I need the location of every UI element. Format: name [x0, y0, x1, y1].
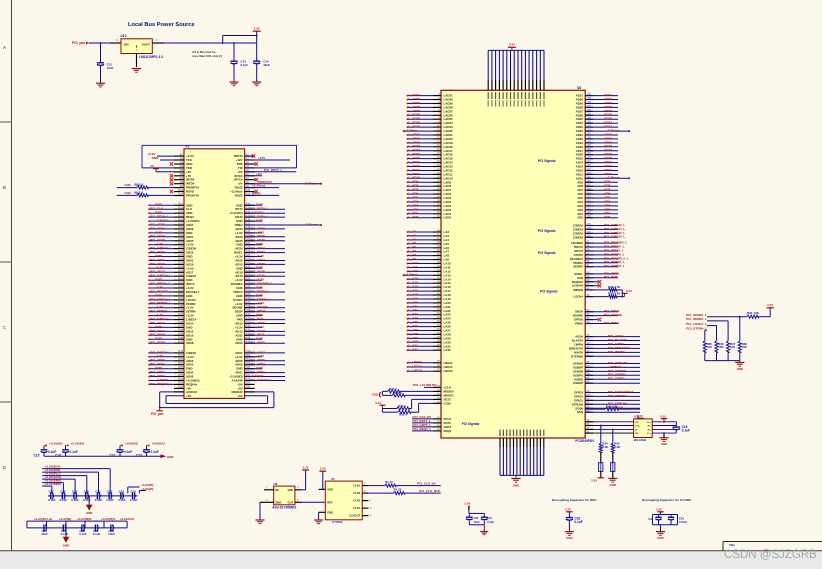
- svg-text:SSQ: SSQ: [577, 410, 584, 414]
- svg-text:0.1uF: 0.1uF: [70, 450, 78, 454]
- svg-text:PCI_LOCK#_L: PCI_LOCK#_L: [686, 322, 707, 326]
- svg-text:B41: B41: [178, 317, 183, 320]
- svg-text:10K: 10K: [718, 345, 724, 349]
- svg-text:B57: B57: [178, 382, 183, 385]
- svg-text:LAD0: LAD0: [444, 216, 452, 220]
- svg-text:L_AD0: L_AD0: [409, 215, 419, 219]
- svg-text:2.2K: 2.2K: [614, 445, 621, 449]
- EEPROM U11 body: [634, 419, 653, 438]
- connector P1 bottom loop inner: [166, 395, 184, 397]
- capacitor C12: [100, 43, 102, 63]
- connector P1 body: [184, 149, 245, 399]
- U7 left pin stubs: [319, 488, 326, 490]
- svg-text:LM1117MPX-3.3: LM1117MPX-3.3: [139, 55, 163, 59]
- ground below C13: [229, 81, 238, 83]
- svg-text:PCI_SDONE: PCI_SDONE: [604, 313, 622, 317]
- ground below U10: [132, 68, 141, 70]
- svg-text:CSDN @SJZGRB: CSDN @SJZGRB: [724, 549, 817, 561]
- connector P1 right pins group2: [245, 204, 255, 206]
- svg-text:0.1uF: 0.1uF: [61, 532, 69, 536]
- svg-text:+3.3Vaux: +3.3Vaux: [252, 184, 266, 188]
- svg-text:REQ#: REQ#: [444, 429, 452, 433]
- U8 right pin M66EN pull-up resistor R28: [585, 289, 593, 291]
- svg-text:C/BE3#: C/BE3#: [573, 235, 584, 239]
- svg-text:B24: B24: [178, 250, 183, 253]
- svg-text:2.2K: 2.2K: [602, 445, 609, 449]
- svg-text:CLK1: CLK1: [353, 484, 361, 488]
- power 3.3V above U6: [302, 469, 309, 471]
- bottom rail pull network: [705, 360, 740, 362]
- power 3.3V above EEPROM right: [663, 419, 665, 422]
- clock buffer U7 body: [325, 481, 362, 520]
- svg-text:BTERM#: BTERM#: [571, 354, 583, 358]
- svg-text:D: D: [3, 465, 6, 470]
- svg-text:B39: B39: [178, 309, 183, 312]
- svg-text:0.1uF: 0.1uF: [60, 498, 68, 502]
- svg-text:+3.3V(B): +3.3V(B): [141, 487, 153, 491]
- svg-text:PCI Signals: PCI Signals: [540, 290, 558, 294]
- ground port MODE pins: [381, 391, 383, 395]
- capacitor C31: [481, 516, 488, 518]
- regulator ground pin wire: [136, 54, 138, 68]
- svg-text:PME#: PME#: [575, 322, 583, 326]
- svg-text:+3.3V(IO): +3.3V(IO): [49, 442, 63, 446]
- svg-text:B42: B42: [178, 321, 183, 324]
- svg-text:C16: C16: [55, 453, 61, 457]
- cap bank row C: [27, 520, 127, 522]
- cap bank row A: [43, 445, 45, 449]
- svg-text:+12V: +12V: [258, 156, 266, 160]
- svg-text:3.3V: 3.3V: [375, 401, 381, 405]
- svg-text:10uF: 10uF: [263, 63, 270, 67]
- svg-text:0.1uF: 0.1uF: [106, 498, 114, 502]
- svg-text:A57: A57: [246, 382, 251, 385]
- svg-text:DO: DO: [635, 433, 639, 435]
- svg-text:B58: B58: [178, 386, 183, 389]
- EEPROM right wires: [652, 421, 676, 423]
- svg-text:PCI_PAR: PCI_PAR: [604, 275, 618, 279]
- svg-text:10uF: 10uF: [107, 66, 114, 70]
- U8 left pins TEST CC0 with resistors to 3.3V: [433, 398, 441, 400]
- svg-text:B16: B16: [178, 218, 183, 221]
- U8 left pins MODE group with resistors: [433, 390, 441, 392]
- svg-text:0.1uF: 0.1uF: [124, 450, 132, 454]
- zone tick y=262: [0, 261, 12, 263]
- svg-text:A58: A58: [246, 386, 251, 389]
- svg-text:PCI_CLK 1/0: PCI_CLK 1/0: [417, 482, 436, 486]
- svg-text:AD0: AD0: [604, 215, 610, 219]
- U8 right pins GPIO group: [585, 392, 593, 394]
- capacitor C34: [670, 515, 672, 518]
- svg-text:C20: C20: [84, 490, 90, 494]
- ground below EEPROM right: [663, 433, 665, 438]
- svg-text:0.01uF: 0.01uF: [679, 520, 688, 524]
- svg-text:C17: C17: [49, 490, 55, 494]
- svg-text:R28 4.7K: R28 4.7K: [608, 285, 621, 289]
- U8 right pin LOCK# pull-up resistor R29 to 3.3V: [585, 296, 593, 298]
- cap bank row B capacitors: [48, 495, 138, 497]
- svg-text:B32: B32: [178, 281, 183, 284]
- svg-text:VDD: VDD: [327, 487, 333, 491]
- svg-text:L_A32: L_A32: [409, 348, 419, 352]
- svg-text:0.1uF: 0.1uF: [79, 532, 87, 536]
- svg-text:C21: C21: [95, 490, 101, 494]
- svg-text:PCI_PERR#_L: PCI_PERR#_L: [686, 317, 707, 321]
- svg-text:U10: U10: [121, 34, 127, 38]
- ground below U8: [515, 475, 517, 478]
- svg-text:B12: B12: [178, 203, 183, 206]
- svg-text:3.3V: 3.3V: [767, 303, 773, 307]
- svg-text:R34: R34: [747, 311, 753, 315]
- U8 right pins IDSEL PAR group: [585, 273, 593, 275]
- svg-text:+5V: +5V: [256, 172, 263, 176]
- svg-text:0.1uF: 0.1uF: [574, 520, 582, 524]
- connector P1 blue loop top: [142, 144, 297, 146]
- svg-text:R29 4.7K: R29 4.7K: [608, 292, 621, 296]
- capacitor C30: [466, 516, 473, 518]
- svg-text:3.3V: 3.3V: [509, 43, 515, 47]
- svg-text:B27: B27: [178, 262, 183, 265]
- U8 left pins LAD31..LAD0: [433, 95, 441, 97]
- U8 right pins AD31..AD0: [585, 95, 593, 97]
- wire loop row4 left: [142, 167, 174, 169]
- svg-text:10uF: 10uF: [41, 532, 48, 536]
- svg-text:B50: B50: [178, 354, 183, 357]
- svg-text:GND: GND: [152, 156, 160, 160]
- IC U8 body: [441, 90, 585, 438]
- ground extra decap: [483, 525, 485, 532]
- svg-text:C21: C21: [110, 453, 116, 457]
- svg-text:+5V(IOA): +5V(IOA): [125, 442, 138, 446]
- svg-text:B53: B53: [178, 366, 183, 369]
- svg-text:10K: 10K: [742, 345, 748, 349]
- U8 bottom ground pin array: [499, 438, 501, 447]
- svg-text:B: B: [3, 185, 6, 190]
- svg-text:GND: GND: [124, 183, 130, 187]
- zone tick y=402: [0, 401, 12, 403]
- svg-text:PCI_REQ#_L: PCI_REQ#_L: [413, 427, 432, 431]
- svg-text:C23: C23: [119, 490, 125, 494]
- svg-text:+3.3V(B)B: +3.3V(B)B: [77, 517, 92, 521]
- svg-text:NC: NC: [275, 488, 279, 492]
- wire U6 OUT to U7 REF: [302, 501, 325, 503]
- svg-text:U8: U8: [577, 86, 581, 90]
- svg-text:10K: 10K: [754, 311, 760, 315]
- svg-text:R41 0: R41 0: [135, 191, 144, 195]
- svg-text:U6: U6: [274, 482, 278, 486]
- U8 right pins PCI control group: [585, 242, 593, 244]
- svg-text:B34: B34: [178, 289, 183, 292]
- U8 top power pin array: [487, 80, 489, 90]
- svg-text:B37: B37: [178, 301, 183, 304]
- svg-text:GND: GND: [63, 543, 69, 547]
- ground below C12: [96, 82, 105, 84]
- svg-text:3.3V: 3.3V: [660, 414, 666, 418]
- U8 right pins USB group: [585, 363, 593, 365]
- svg-text:B14: B14: [178, 211, 183, 214]
- svg-text:C31: C31: [487, 516, 492, 520]
- svg-text:B56: B56: [178, 378, 183, 381]
- row B right feed wires: [128, 486, 140, 488]
- svg-text:+3.3Vaux: +3.3Vaux: [304, 182, 318, 186]
- svg-text:+3.3V(PLL)A: +3.3V(PLL)A: [34, 517, 53, 521]
- U8 right pins SBO group: [585, 311, 593, 313]
- title block frame: [723, 541, 822, 543]
- svg-text:AD0: AD0: [577, 216, 583, 220]
- svg-text:3.3V: 3.3V: [656, 507, 662, 511]
- svg-text:OUT: OUT: [288, 500, 294, 504]
- svg-text:PCI_WAIT#: PCI_WAIT#: [608, 350, 625, 354]
- connector P1 left pins group1: [174, 155, 184, 157]
- power 3.3V top: [253, 30, 261, 32]
- svg-text:CY2305: CY2305: [332, 520, 343, 524]
- ground arrow row B: [88, 496, 90, 505]
- svg-text:PCI_AD09: PCI_AD09: [250, 341, 265, 345]
- svg-text:10uF: 10uF: [108, 532, 115, 536]
- svg-text:VOUT: VOUT: [142, 43, 151, 47]
- svg-text:B46: B46: [178, 337, 183, 340]
- svg-text:GND: GND: [661, 442, 667, 446]
- svg-text:ASV-25.000MHZ: ASV-25.000MHZ: [272, 505, 296, 509]
- svg-text:VDD: VDD: [288, 488, 294, 492]
- svg-text:B29: B29: [178, 270, 183, 273]
- svg-text:C23: C23: [136, 453, 142, 457]
- connector P1 left pins group2: [174, 204, 184, 206]
- svg-text:PCI_USBID: PCI_USBID: [608, 377, 625, 381]
- svg-text:GND: GND: [657, 536, 663, 540]
- svg-text:CLK2: CLK2: [353, 491, 361, 495]
- svg-text:L_LBE3#: L_LBE3#: [409, 369, 423, 373]
- svg-text:B26: B26: [178, 258, 183, 261]
- svg-text:PCI Signals: PCI Signals: [538, 159, 556, 163]
- svg-text:RSVD: RSVD: [235, 194, 243, 198]
- svg-text:3.3V: 3.3V: [465, 502, 471, 506]
- power 3.3V right network: [767, 307, 774, 309]
- cap bank row B fan wires: [42, 468, 110, 470]
- svg-text:PCI_LCLKRUN#: PCI_LCLKRUN#: [413, 383, 437, 387]
- svg-text:0.1uF: 0.1uF: [48, 498, 56, 502]
- svg-text:PCI_PME#: PCI_PME#: [604, 321, 620, 325]
- svg-text:+3.3V(SBB): +3.3V(SBB): [45, 482, 62, 486]
- power +5V row5 left: [156, 171, 174, 173]
- wires right group1 of P1: [245, 155, 252, 157]
- svg-text:Decoupling Capacitor for OSC: Decoupling Capacitor for OSC: [552, 498, 597, 502]
- svg-text:GND: GND: [86, 511, 92, 515]
- svg-text:SERR#: SERR#: [573, 265, 583, 269]
- connector P1 left pins group3: [174, 352, 184, 354]
- svg-text:B31: B31: [178, 278, 183, 281]
- svg-text:R1 33: R1 33: [385, 480, 393, 484]
- svg-text:B21: B21: [178, 238, 183, 241]
- svg-text:C19: C19: [72, 490, 78, 494]
- svg-text:C: C: [3, 325, 6, 330]
- svg-text:B49: B49: [178, 350, 183, 353]
- svg-text:PCI Signals: PCI Signals: [462, 422, 480, 426]
- svg-text:0.1uF: 0.1uF: [241, 63, 249, 67]
- svg-text:+5V: +5V: [237, 394, 242, 398]
- svg-text:B47: B47: [178, 341, 183, 344]
- svg-text:USBSP: USBSP: [573, 381, 583, 385]
- no-connect marks rows 6-8 left: [170, 174, 173, 177]
- svg-text:10K: 10K: [707, 345, 713, 349]
- svg-text:GND: GND: [124, 191, 130, 195]
- pin stubs U8 bottom right: [585, 421, 593, 423]
- U8 left pins LA2..LA32: [433, 231, 441, 233]
- svg-text:CLKOUT: CLKOUT: [349, 514, 361, 518]
- svg-text:R2 33: R2 33: [394, 488, 402, 492]
- svg-text:C18: C18: [60, 490, 66, 494]
- svg-text:0.1uF: 0.1uF: [130, 498, 138, 502]
- svg-text:GND: GND: [256, 219, 264, 223]
- svg-text:B45: B45: [178, 333, 183, 336]
- zone tick y=122: [0, 121, 12, 123]
- no-connect row10 left: [170, 190, 173, 193]
- svg-text:RSVD: RSVD: [252, 192, 261, 196]
- svg-text:B10: B10: [178, 189, 183, 192]
- svg-text:+3.3VAUX: +3.3VAUX: [120, 517, 135, 521]
- jumper B2: [611, 463, 615, 472]
- svg-text:Decoupling Capacitor for CY230: Decoupling Capacitor for CY2305: [642, 498, 691, 502]
- svg-text:B51: B51: [178, 358, 183, 361]
- svg-text:C24: C24: [130, 490, 136, 494]
- svg-text:+5V(IOA): +5V(IOA): [152, 442, 165, 446]
- decap rails CY2305: [653, 514, 678, 516]
- svg-text:GND: GND: [513, 484, 519, 488]
- svg-text:PRSNT2#: PRSNT2#: [186, 194, 199, 198]
- svg-text:3.3V: 3.3V: [320, 467, 326, 471]
- svg-text:GND: GND: [275, 500, 281, 504]
- svg-text:3.3V: 3.3V: [591, 479, 597, 483]
- svg-text:+3.3V(B): +3.3V(B): [59, 517, 71, 521]
- svg-text:0.1uF: 0.1uF: [93, 532, 101, 536]
- U8 top pin numbers: [488, 92, 489, 99]
- ground OSC decap: [565, 531, 574, 533]
- svg-text:B44: B44: [178, 329, 183, 332]
- wire U7 VDD to 3.3V: [322, 471, 324, 489]
- svg-text:C34: C34: [679, 516, 684, 520]
- wire SERR pull-up R34 to 3.3V: [707, 316, 747, 318]
- svg-text:LOCK#: LOCK#: [573, 295, 583, 299]
- svg-text:PCI_AD08: PCI_AD08: [150, 341, 165, 345]
- regulator U10: [121, 39, 152, 54]
- U8 bottom pin numbers: [499, 430, 500, 437]
- svg-text:LA32: LA32: [444, 348, 451, 352]
- jumper B1: [599, 463, 603, 472]
- svg-text:+5V: +5V: [186, 394, 191, 398]
- svg-text:NC: NC: [648, 429, 652, 431]
- svg-text:B15: B15: [178, 214, 183, 217]
- svg-text:AD08: AD08: [186, 341, 194, 345]
- svg-text:B54: B54: [178, 370, 183, 373]
- svg-text:U7: U7: [331, 477, 335, 481]
- resistors R35-R38 vertical: [703, 341, 706, 353]
- decap rails extra: [469, 512, 484, 514]
- U6 pin stubs: [264, 489, 274, 491]
- wire row11 left R41: [117, 194, 137, 196]
- wire input to regulator: [89, 42, 110, 44]
- ground below C14: [252, 81, 261, 83]
- svg-text:3.3V: 3.3V: [254, 27, 260, 31]
- svg-text:0.1uF: 0.1uF: [151, 450, 159, 454]
- svg-text:PCI_ACK64#_L: PCI_ACK64#_L: [250, 378, 272, 382]
- wire U6 VDD to 3.3V: [302, 489, 306, 491]
- svg-text:B28: B28: [178, 266, 183, 269]
- capacitor C14: [256, 43, 258, 61]
- svg-text:PCI Signals: PCI Signals: [538, 251, 556, 255]
- wire regulator output: [164, 42, 256, 44]
- ground left of U6: [259, 502, 261, 520]
- svg-text:B35: B35: [178, 293, 183, 296]
- svg-text:GND: GND: [327, 510, 333, 514]
- svg-text:0.1uF: 0.1uF: [71, 498, 79, 502]
- svg-text:B22: B22: [178, 242, 183, 245]
- U8 right pins local control group: [585, 336, 593, 338]
- svg-text:3.3V: 3.3V: [565, 507, 571, 511]
- sheet left border line: [11, 0, 13, 551]
- svg-text:B20: B20: [178, 234, 183, 237]
- ground arrow row C: [65, 528, 67, 537]
- svg-text:R40 0: R40 0: [135, 183, 144, 187]
- svg-text:B38: B38: [178, 305, 183, 308]
- svg-text:0.1uF: 0.1uF: [118, 498, 126, 502]
- capacitor C33: [658, 515, 660, 518]
- capacitor C32: [566, 517, 573, 519]
- wires U8 to EEPROM U11: [585, 421, 633, 423]
- svg-text:C30: C30: [474, 516, 479, 520]
- U8 left pins LBE group: [433, 362, 441, 364]
- svg-text:PCI_GPIO2#: PCI_GPIO2#: [608, 394, 626, 398]
- capacitor C13: [233, 43, 235, 61]
- svg-text:M66EN: M66EN: [573, 288, 583, 292]
- wire +3.3V row1 left: [157, 155, 174, 157]
- ground pull network: [739, 361, 741, 363]
- svg-text:3.3V: 3.3V: [626, 289, 632, 293]
- svg-text:PCI_C/BE3#_L: PCI_C/BE3#_L: [604, 235, 625, 239]
- svg-text:CLK: CLK: [635, 426, 640, 428]
- svg-text:NC: NC: [648, 426, 652, 428]
- svg-text:GND: GND: [372, 393, 378, 397]
- svg-text:B11: B11: [179, 193, 184, 196]
- svg-text:+3.3V(B)V: +3.3V(B)V: [101, 517, 116, 521]
- power 3.3V near EEPROM: [639, 418, 641, 422]
- power 3.3V port MODE cluster: [381, 409, 383, 413]
- svg-text:PCI_pwr: PCI_pwr: [151, 412, 165, 416]
- svg-text:CS: CS: [635, 422, 639, 424]
- wire upper 3.3V branch: [223, 35, 257, 37]
- svg-text:B30: B30: [178, 274, 183, 277]
- svg-text:PCI_DEVSEL#_L: PCI_DEVSEL#_L: [150, 289, 175, 293]
- svg-text:B18: B18: [178, 226, 183, 229]
- svg-text:C22: C22: [107, 490, 113, 494]
- pin 2 stub of U10: [152, 42, 164, 44]
- page margin strip bottom: [0, 551, 822, 569]
- svg-text:A10: A10: [246, 189, 251, 192]
- resistor R45 vertical: [612, 429, 614, 443]
- capacitor C16 at EEPROM: [673, 426, 681, 428]
- svg-text:GND: GND: [566, 536, 572, 540]
- svg-text:VIN: VIN: [124, 43, 129, 47]
- svg-text:Local Bus Power Source: Local Bus Power Source: [128, 22, 195, 28]
- svg-text:B25: B25: [178, 254, 183, 257]
- svg-text:+5V: +5V: [150, 165, 155, 168]
- svg-text:AD09: AD09: [235, 341, 243, 345]
- ground below R45: [608, 477, 617, 479]
- svg-text:REF: REF: [327, 500, 333, 504]
- svg-text:+3.3Vaux: +3.3Vaux: [304, 222, 318, 226]
- no-connect marks left group1: [170, 162, 173, 165]
- U8 left pin LCLKRUN: [433, 386, 441, 388]
- svg-text:+3.3V(IO): +3.3V(IO): [71, 442, 85, 446]
